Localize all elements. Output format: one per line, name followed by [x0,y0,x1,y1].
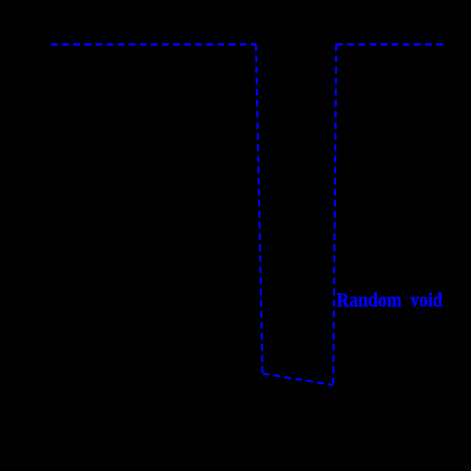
wire: left wall of void [256,44,263,373]
svg-text:Random: Random [337,290,402,312]
wire: right wall of void [333,44,336,385]
wire: left surface dashed line [51,43,256,46]
wire: bottom of void [263,374,334,386]
svg-text:void: void [411,290,443,312]
wire: right surface dashed line [336,43,443,46]
